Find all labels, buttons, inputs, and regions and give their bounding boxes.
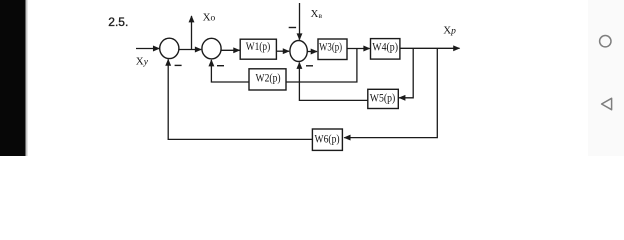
- block W2: [249, 69, 286, 90]
- nav icon: back triangle: [602, 98, 612, 109]
- label Xy: [136, 56, 149, 68]
- svg-text:2.5.: 2.5.: [108, 15, 128, 29]
- takeoff after W4: wire down and left into W5: [399, 48, 413, 98]
- label Xp: [443, 25, 456, 37]
- right nav-bar background: [588, 0, 624, 156]
- left black letterbox bar: [0, 0, 28, 156]
- takeoff wire up to Xo output arrow: [191, 16, 193, 50]
- input wire Xy with arrow into summer S1: [136, 48, 159, 50]
- wire W2 output left and up into S2: [211, 60, 249, 82]
- summing junction S2: [202, 38, 221, 59]
- minus sign at S1 lower input: [175, 65, 182, 66]
- output wire W4 to Xp arrow: [400, 47, 459, 49]
- label XB: [311, 8, 323, 20]
- wire W3 to W4: [347, 48, 370, 50]
- block W5: [368, 89, 399, 108]
- wire W6 output left and up into S1: [168, 59, 312, 139]
- svg-text:Xy: Xy: [136, 56, 149, 68]
- svg-text:W1(p): W1(p): [246, 41, 271, 53]
- svg-text:Xp: Xp: [443, 25, 456, 37]
- svg-text:W4(p): W4(p): [372, 42, 398, 54]
- label 2.5.: [108, 15, 128, 29]
- block W1: [240, 39, 276, 59]
- wire S3 to W3: [307, 51, 317, 53]
- minus sign at S2 lower input: [217, 65, 224, 66]
- wire W5 output left and up into S3: [299, 63, 367, 101]
- block W6: [312, 129, 342, 150]
- svg-text:W5(p): W5(p): [370, 92, 396, 104]
- disturbance input XB vertical wire with arrow into S3: [299, 3, 301, 40]
- minus sign at S3 lower input: [306, 65, 313, 66]
- svg-text:W6(p): W6(p): [315, 134, 340, 146]
- takeoff after W3: wire down to W2 feedback line: [286, 49, 357, 83]
- wire S2 to W1: [221, 49, 239, 51]
- takeoff after W4: outer feedback wire down to W6 line: [344, 48, 437, 137]
- nav icon: home circle: [600, 36, 611, 47]
- label Xo: [203, 12, 216, 24]
- summing junction S3: [290, 41, 307, 62]
- svg-text:W2(p): W2(p): [256, 73, 281, 85]
- svg-text:Xo: Xo: [203, 12, 216, 24]
- wire S1 to S2: [179, 49, 201, 51]
- summing junction S1: [160, 38, 179, 58]
- minus sign at S3 top input: [289, 27, 296, 28]
- block W4: [371, 39, 400, 60]
- svg-text:Xв: Xв: [311, 8, 323, 20]
- svg-text:W3(p): W3(p): [319, 42, 342, 54]
- block W3: [318, 39, 347, 60]
- wire W1 to S3: [277, 50, 290, 52]
